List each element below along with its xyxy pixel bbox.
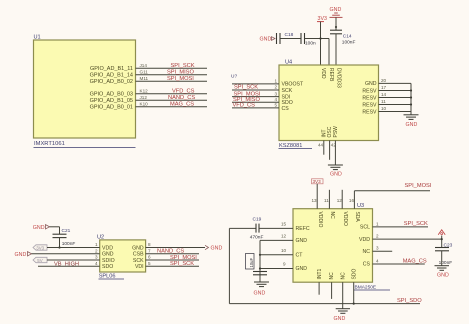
svg-text:REFB: REFB <box>328 68 334 82</box>
wire U3 top VDDO stub <box>341 190 343 209</box>
wire U2 VDI right <box>146 265 199 267</box>
U3 pin name CT <box>296 253 304 259</box>
wire U4 INT bottom <box>323 141 325 155</box>
U2 part value SPL06 <box>99 274 125 280</box>
U3 pin name INT1 (bottom, vertical) <box>317 268 323 279</box>
svg-text:K12: K12 <box>140 89 149 94</box>
U1 pin name GPIO_AD_B1_05 <box>90 98 133 104</box>
svg-text:GND: GND <box>437 273 449 279</box>
pin number 13 (U3 top) <box>312 198 318 203</box>
wire U1 pin J14 <box>136 67 208 69</box>
U3 pin name SDA (top, vertical) <box>354 212 360 223</box>
svg-text:3: 3 <box>95 255 98 260</box>
svg-text:44: 44 <box>318 143 324 148</box>
pin number 7 (U2 right) <box>148 249 151 254</box>
wire U3 CT left <box>260 254 293 256</box>
svg-text:K10: K10 <box>140 102 149 107</box>
power 3V3 (top) <box>317 16 327 22</box>
wire U4 SDI <box>232 96 279 98</box>
wire 3V3 to U3 VDDIO <box>316 184 318 209</box>
wire U4 RESV3 right <box>379 104 412 106</box>
svg-text:MAG_CS: MAG_CS <box>403 258 427 264</box>
ground symbol (U4 right) <box>404 115 419 128</box>
pin number 14 (U4 right) <box>381 92 387 97</box>
svg-text:GND: GND <box>102 252 114 258</box>
U4 designator <box>285 60 292 66</box>
wire U3 left ground bus <box>259 240 261 281</box>
svg-text:7: 7 <box>148 249 151 254</box>
svg-text:NAND_CS: NAND_CS <box>157 249 184 255</box>
svg-text:U?: U? <box>231 74 237 80</box>
node NAND_CS (U2) <box>157 249 184 255</box>
svg-text:C14: C14 <box>343 34 352 40</box>
U2 pin name CSB <box>133 252 144 258</box>
svg-text:SPI_SDO: SPI_SDO <box>397 298 422 304</box>
node SPI_MOSI <box>167 76 194 82</box>
IC U3 body <box>293 209 373 283</box>
U2 pin name VDI <box>135 264 144 270</box>
svg-text:17: 17 <box>381 85 387 90</box>
svg-text:10: 10 <box>381 106 387 111</box>
pin number 3 (U2 left) <box>95 255 98 260</box>
wire U3 GND left <box>260 239 293 241</box>
svg-text:6: 6 <box>148 255 151 260</box>
wire U1 pin M11 <box>136 80 208 82</box>
svg-text:3V3: 3V3 <box>36 245 44 250</box>
wire U3 top NC stub <box>328 190 330 209</box>
wire U4 RESV1 right <box>379 90 412 92</box>
svg-text:10uF: 10uF <box>249 258 254 268</box>
svg-text:SPI_MOSI: SPI_MOSI <box>405 183 432 189</box>
wire U2 SDIO <box>47 259 100 261</box>
pin number 4 (U4 left) <box>275 97 278 102</box>
U2 designator <box>97 235 104 241</box>
IC U1 body <box>34 40 136 138</box>
wire U2 VDD <box>47 247 100 249</box>
svg-text:5V: 5V <box>37 258 42 263</box>
svg-text:4: 4 <box>275 97 278 102</box>
svg-text:1: 1 <box>376 221 379 226</box>
U4 pin name INT (bottom, vertical) <box>321 129 327 137</box>
svg-text:J14: J14 <box>140 63 148 68</box>
junction C21/VDD <box>58 246 60 248</box>
junction dots U4 right bus <box>410 89 412 105</box>
ground symbol (U3 left) <box>254 282 270 296</box>
U3 pin name NC3 (bottom, vertical) <box>340 272 346 280</box>
wire U3 SDO bottom to SPI_SDO <box>353 282 355 303</box>
pin number 4 (U3 right) <box>376 258 379 263</box>
svg-text:U2: U2 <box>97 235 104 241</box>
svg-text:C21: C21 <box>62 228 71 234</box>
wire 3V3 vertical to U4 <box>320 22 322 65</box>
wire U3 VDD right <box>373 238 442 240</box>
svg-text:RESV: RESV <box>362 95 377 101</box>
wire U3 SDA up and right <box>354 191 430 209</box>
svg-text:GND: GND <box>132 245 144 251</box>
svg-text:SPI_SCK: SPI_SCK <box>170 261 194 267</box>
node NAND_CS <box>168 95 195 101</box>
svg-text:3V3: 3V3 <box>313 179 322 184</box>
U4 pin name OSC (bottom, vertical) <box>327 126 333 137</box>
svg-text:IMXRT1061: IMXRT1061 <box>34 141 65 147</box>
node MAG_CS (U3) <box>403 258 427 264</box>
svg-text:U4: U4 <box>285 60 292 66</box>
wire U3 NC bottom stub <box>331 282 333 299</box>
svg-text:5: 5 <box>275 103 278 108</box>
svg-text:VDDIO: VDDIO <box>317 212 323 228</box>
wire U2 GND right to port <box>146 247 205 249</box>
power 3V3 arrow port (right) <box>438 230 445 235</box>
svg-text:VFD_CS: VFD_CS <box>172 89 195 95</box>
U4 pin name SDO <box>282 100 293 106</box>
pin number 11 (U3 top) <box>324 198 329 203</box>
svg-text:NC: NC <box>329 212 335 220</box>
wire U4 RESV4 right <box>379 111 412 113</box>
svg-text:9: 9 <box>283 262 286 267</box>
svg-text:GND: GND <box>296 238 308 244</box>
node SPI_MISO (U4) <box>233 97 260 103</box>
U4 pin name VDD (top, vertical) <box>320 68 326 79</box>
U3 pin name GND2 <box>296 266 308 272</box>
node VFD_CS <box>172 89 195 95</box>
svg-text:CS: CS <box>282 106 290 112</box>
wire GND port to C21 <box>50 227 60 234</box>
svg-text:SPI_MOSI: SPI_MOSI <box>167 76 194 82</box>
wire C23 to ground <box>441 251 443 266</box>
svg-text:16: 16 <box>349 198 355 203</box>
U4 part value <box>279 143 313 149</box>
svg-text:VDD: VDD <box>359 237 370 243</box>
svg-text:GPIO_AD_B1_05: GPIO_AD_B1_05 <box>90 98 133 104</box>
pin number K10 <box>140 102 149 107</box>
pin number 5 (U2 right) <box>148 261 151 266</box>
wire 3V3 port to VDD junction <box>441 236 443 248</box>
pin number 3 (U3 right) <box>376 246 379 251</box>
svg-text:10: 10 <box>281 248 287 253</box>
svg-text:VDI: VDI <box>135 264 144 270</box>
U2 pin name VDD <box>102 245 113 251</box>
wire U3 SCL right <box>373 226 429 228</box>
svg-text:GND: GND <box>334 316 346 322</box>
wire U4 SCK <box>232 89 279 91</box>
node SPI_SCK (U4) <box>234 85 258 91</box>
svg-text:4: 4 <box>376 258 379 263</box>
U4 pin name SDI <box>282 94 291 100</box>
pin number 12 (U3 top) <box>337 198 343 203</box>
svg-text:3: 3 <box>275 91 278 96</box>
svg-text:C18: C18 <box>285 32 294 38</box>
svg-text:RESV: RESV <box>362 109 377 115</box>
ground symbol (U3 bottom) <box>334 309 351 322</box>
svg-text:GND: GND <box>254 290 266 296</box>
pin number 10 (U4 right) <box>381 106 387 111</box>
pin number 1 (U3 right) <box>376 221 379 226</box>
svg-text:PSW: PSW <box>333 126 339 138</box>
pin number 10 (U3 left) <box>281 248 287 253</box>
node SPI_MOSI (U2) <box>170 255 197 261</box>
junction dots U3 left bus <box>259 254 261 270</box>
svg-text:CSB: CSB <box>133 252 144 258</box>
junction on GND stem <box>335 26 337 28</box>
wire REFC down and along bottom <box>229 228 420 303</box>
pin number 2 (U2 left) <box>95 249 98 254</box>
svg-text:SDIO: SDIO <box>102 258 115 264</box>
pin number 4 (U2 left) <box>95 261 98 266</box>
U3 pin name NC2 (bottom, vertical) <box>329 272 335 280</box>
capacitor C14 <box>330 30 355 45</box>
svg-text:GND: GND <box>211 246 223 252</box>
wire U4 right ground bus <box>410 83 412 114</box>
U4 pin name GND right <box>365 81 377 87</box>
capacitor C21 <box>53 228 76 247</box>
svg-text:SDA: SDA <box>354 212 360 223</box>
wire U4 RESV2 right <box>379 97 412 99</box>
svg-text:RESV: RESV <box>362 88 377 94</box>
node SPI_MOSI (U3) <box>405 183 432 189</box>
pin number 16 (U3 top) <box>349 198 355 203</box>
svg-text:VBOOST: VBOOST <box>282 82 304 88</box>
U1 part value IMXRT1061 <box>34 141 136 147</box>
svg-text:470nF: 470nF <box>250 235 264 241</box>
U3 pin name NC <box>363 249 371 255</box>
node SPI_SCK <box>171 63 195 69</box>
U3 pin name SDO (bottom, vertical) <box>351 269 357 280</box>
svg-text:12: 12 <box>337 198 343 203</box>
U3 part value BMA250E <box>354 285 390 291</box>
U4 pin name RESV1 <box>362 88 377 94</box>
svg-text:M11: M11 <box>140 76 149 81</box>
svg-text:100nF: 100nF <box>62 241 76 247</box>
svg-text:NAND_CS: NAND_CS <box>168 95 195 101</box>
svg-text:GND: GND <box>330 172 342 178</box>
wire C15 to 3V3 rail <box>305 39 330 66</box>
junction VDD/C23 <box>441 238 443 240</box>
svg-text:VDD: VDD <box>102 245 113 251</box>
pin number 2 (U3 right) <box>376 234 379 239</box>
node SPI_SCK (U2) <box>170 261 194 267</box>
pin number M11 <box>140 76 149 81</box>
IC U4 body <box>279 65 379 141</box>
pin number 1 (U4 left) <box>275 79 278 84</box>
pin number 15 (U3 left) <box>281 221 287 226</box>
wire U1 pin G11 <box>136 74 208 76</box>
junction on 3V3 rail <box>319 37 321 39</box>
U2 pin name SDO <box>102 264 113 270</box>
wire C14 to U4 top <box>335 34 337 65</box>
svg-text:SPI_SCK: SPI_SCK <box>171 63 195 69</box>
wire GND vertical to C14 <box>335 17 337 30</box>
pin number 3 (U4 left) <box>275 91 278 96</box>
wire U4 SDO <box>232 101 279 103</box>
svg-text:100n: 100n <box>305 40 316 46</box>
svg-text:SCK: SCK <box>133 258 144 264</box>
wire U1 pin K10 <box>136 106 208 108</box>
U2 pin name GND right <box>132 245 144 251</box>
svg-text:14: 14 <box>381 92 387 97</box>
pin number 6 (U2 right) <box>148 255 151 260</box>
pin number 8 (U2 right) <box>148 242 151 247</box>
svg-text:2: 2 <box>376 234 379 239</box>
svg-text:11: 11 <box>324 198 329 203</box>
U2 pin name SDIO <box>102 258 115 264</box>
U4 designator small U? <box>231 74 237 80</box>
svg-text:GPIO_AD_B0_03: GPIO_AD_B0_03 <box>90 91 133 97</box>
pin number K12 <box>140 89 149 94</box>
port 5V (U2 SDIO) <box>33 257 47 263</box>
port 3V3 (U2 VDD) <box>33 245 47 251</box>
svg-text:G11: G11 <box>140 70 149 75</box>
svg-text:NC: NC <box>329 272 335 280</box>
svg-text:MAG_CS: MAG_CS <box>170 102 194 108</box>
capacitor C19 with REFC wire <box>229 217 293 241</box>
U1 pin name GPIO_AD_B0_03 <box>90 91 133 97</box>
pin number J14 <box>140 63 148 68</box>
node VB_HIGH <box>54 262 79 268</box>
svg-text:SPI_SCK: SPI_SCK <box>234 85 258 91</box>
svg-text:U3: U3 <box>357 203 364 209</box>
svg-text:GND: GND <box>33 225 45 231</box>
U4 pin name VBOOST <box>282 82 304 88</box>
wire U2 CSB right <box>146 253 199 255</box>
svg-text:GND: GND <box>260 37 272 43</box>
wire C21 to VDD row <box>59 238 61 248</box>
power GND (U2 left) <box>15 252 32 258</box>
wire U3 NC right stub <box>373 250 393 252</box>
node VFD_CS (U4) <box>233 103 256 109</box>
wire U4 OSC bottom <box>329 141 331 160</box>
svg-text:GPIO_AD_B0_02: GPIO_AD_B0_02 <box>90 79 133 85</box>
ground symbol (U4 bottom) <box>328 165 343 178</box>
svg-text:2: 2 <box>95 249 98 254</box>
svg-text:RESV: RESV <box>362 102 377 108</box>
U4 pin name RESV4 <box>362 109 377 115</box>
power 3V3 (U3 top) <box>312 179 324 184</box>
U3 pin name REFC <box>296 226 310 232</box>
wire U4 CS <box>232 107 279 109</box>
svg-text:GPIO_AD_B0_01: GPIO_AD_B0_01 <box>90 104 133 110</box>
svg-text:INT1: INT1 <box>317 268 323 279</box>
capacitor C18 <box>277 32 294 44</box>
U4 pin name DVDD33 (top, vertical) <box>336 68 342 88</box>
node SPI_SDO <box>397 298 422 304</box>
wire U3 GND2 left <box>260 268 293 270</box>
U3 pin name VDDO (top, vertical) <box>342 212 348 227</box>
svg-text:C19: C19 <box>253 217 262 223</box>
U2 pin name SCK <box>133 258 144 264</box>
svg-text:U1: U1 <box>34 35 41 41</box>
U3 pin name VDD <box>359 237 370 243</box>
svg-text:GND: GND <box>406 122 418 128</box>
U4 pin name RESV3 <box>362 102 377 108</box>
pin number 2 (U4 left) <box>275 85 278 90</box>
U3 pin name NC (top, vertical) <box>329 212 335 220</box>
svg-text:SDO: SDO <box>351 269 357 280</box>
pin number 44 (U4 bottom) <box>318 143 324 148</box>
wire U4 VBOOST <box>232 83 279 85</box>
svg-text:GND: GND <box>365 81 377 87</box>
U1 designator <box>34 35 41 41</box>
svg-text:CT: CT <box>296 253 304 259</box>
svg-text:NC: NC <box>340 272 346 280</box>
svg-text:1: 1 <box>95 242 98 247</box>
U3 designator <box>357 203 364 209</box>
ground symbol (U3 right cap) <box>435 266 450 279</box>
wire U2 SDO <box>38 265 100 267</box>
svg-text:12: 12 <box>281 233 287 238</box>
node SPI_SCK (U3) <box>404 221 428 227</box>
pin number 5 (U4 left) <box>275 103 278 108</box>
svg-text:VFD_CS: VFD_CS <box>233 103 256 109</box>
svg-text:13: 13 <box>312 198 318 203</box>
wire U1 pin K12 <box>136 93 208 95</box>
svg-text:J12: J12 <box>140 95 148 100</box>
U4 pin name REFB (top, vertical) <box>328 68 334 82</box>
U3 pin name VDDIO (top, vertical) <box>317 212 323 228</box>
wire U1 pin J12 <box>136 99 208 101</box>
svg-text:3: 3 <box>376 246 379 251</box>
wire U3 INT1 bottom stub <box>318 282 320 295</box>
pin number 1 (U2 left) <box>95 242 98 247</box>
svg-text:8: 8 <box>148 242 151 247</box>
svg-text:GND: GND <box>296 266 308 272</box>
power GND (left of C18) <box>260 37 276 43</box>
svg-text:VDD: VDD <box>320 68 326 79</box>
capacitor C23 <box>435 242 453 266</box>
U1 pin name GPIO_AD_B1_11 <box>90 66 133 72</box>
U4 pin name SCK <box>282 88 293 94</box>
svg-text:SCK: SCK <box>282 88 293 94</box>
svg-text:REFC: REFC <box>296 226 310 232</box>
wire U4 GND right <box>379 82 412 84</box>
junction SDO <box>353 303 355 305</box>
IC U2 body <box>100 240 146 272</box>
capacitor C20 tantalum (value box, vertical) <box>246 254 268 275</box>
node SPI_MOSI (U4) <box>234 91 261 97</box>
svg-text:11: 11 <box>381 99 386 104</box>
node MAG_CS <box>170 102 194 108</box>
pin number 12 (U3 left) <box>281 233 287 238</box>
svg-text:CS: CS <box>363 262 371 268</box>
power GND (top, inverted) <box>330 7 343 17</box>
wire U3 CS right <box>373 263 425 265</box>
svg-text:GND: GND <box>15 252 27 258</box>
capacitor C15 <box>301 33 316 46</box>
svg-text:VDDO: VDDO <box>342 212 348 227</box>
svg-text:GND: GND <box>330 7 342 13</box>
svg-text:SCL: SCL <box>360 225 370 231</box>
pin number 9 (U3 left) <box>283 262 286 267</box>
U3 pin name SCL <box>360 225 370 231</box>
pin number J12 <box>140 95 148 100</box>
wire U2 SCK right <box>146 259 199 261</box>
pin number 11 (U4 right) <box>381 99 386 104</box>
wire U3 NC3 bottom to ground <box>342 282 344 308</box>
U1 pin name GPIO_AD_B1_14 <box>90 72 133 78</box>
pin number 42 (U4 bottom) <box>331 143 337 148</box>
svg-text:DVDD33: DVDD33 <box>336 68 342 88</box>
pin number 20 (U4 right) <box>381 78 387 83</box>
port GND (U2 right) <box>205 245 222 251</box>
svg-text:2: 2 <box>275 85 278 90</box>
svg-text:4: 4 <box>95 261 98 266</box>
wire U2 GND <box>32 253 100 255</box>
svg-text:SDO: SDO <box>102 264 113 270</box>
svg-text:SPI_MISO: SPI_MISO <box>167 70 194 76</box>
pin number 17 (U4 right) <box>381 85 387 90</box>
svg-text:GPIO_AD_B1_11: GPIO_AD_B1_11 <box>90 66 133 72</box>
svg-text:SPI_MOSI: SPI_MOSI <box>170 255 197 261</box>
svg-text:1: 1 <box>275 79 278 84</box>
